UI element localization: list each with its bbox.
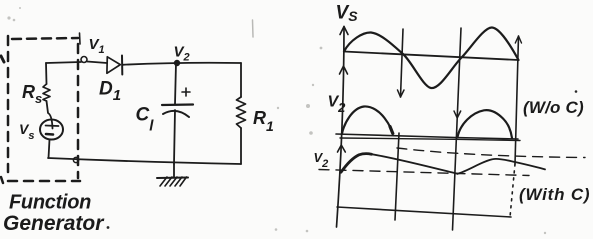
svg-text:R1: R1 xyxy=(253,108,274,134)
svg-text:(With C): (With C) xyxy=(519,185,590,204)
svg-text:VS: VS xyxy=(336,3,359,25)
svg-text:V2: V2 xyxy=(314,150,329,170)
svg-text:Function: Function xyxy=(9,192,91,214)
svg-text:Generator: Generator xyxy=(3,212,105,235)
svg-text:D1: D1 xyxy=(99,79,121,105)
svg-text:V1: V1 xyxy=(89,36,105,56)
svg-text:(W/o C): (W/o C) xyxy=(523,98,584,117)
svg-text:Cl: Cl xyxy=(136,105,155,135)
svg-text:Vs: Vs xyxy=(19,121,34,142)
svg-text:Rs: Rs xyxy=(22,82,42,106)
